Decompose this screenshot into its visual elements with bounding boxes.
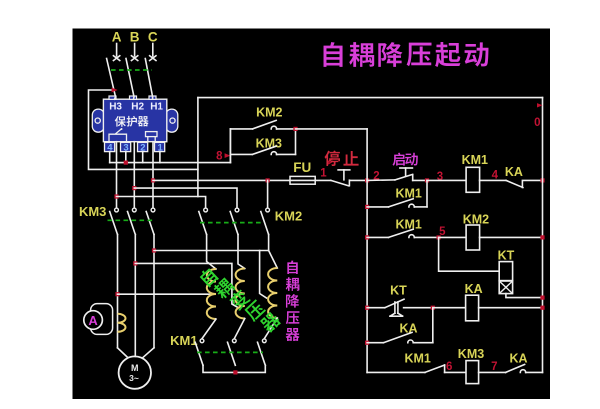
junction dot phase B xyxy=(132,186,136,190)
phase A wire into tab xyxy=(115,97,116,99)
wire to KM1 coil xyxy=(427,179,466,181)
KM2 coil xyxy=(466,225,480,250)
svg-text:H1: H1 xyxy=(150,102,163,113)
svg-text:KM3: KM3 xyxy=(458,347,484,361)
protector terminal 4 xyxy=(105,142,115,151)
label 保护器 xyxy=(115,116,126,127)
protector terminal 1 xyxy=(155,142,165,151)
svg-text:KA: KA xyxy=(465,282,483,296)
tap dot phase C xyxy=(152,248,156,252)
KA selfhold contact xyxy=(367,342,383,344)
return riser to KM2 column xyxy=(197,98,199,197)
svg-text:H3: H3 xyxy=(109,102,122,113)
aux to control rail xyxy=(296,128,368,130)
svg-text:H2: H2 xyxy=(131,102,144,113)
phase B wire to KM3 xyxy=(133,142,135,208)
red mark xyxy=(328,159,334,165)
svg-text:4: 4 xyxy=(492,169,499,181)
KA coil xyxy=(466,295,479,321)
title 自耦降压起动 xyxy=(324,42,343,67)
svg-text:M: M xyxy=(131,363,139,373)
rail dot KT xyxy=(540,296,544,300)
node 2 dot xyxy=(365,178,369,182)
KT delay element xyxy=(499,281,512,294)
svg-text:KM3: KM3 xyxy=(79,204,106,219)
svg-text:8: 8 xyxy=(216,151,223,163)
KA coil to rail xyxy=(479,307,543,309)
control right rail xyxy=(542,98,544,373)
aux junction dot xyxy=(293,127,297,131)
svg-text:7: 7 xyxy=(491,361,497,373)
svg-text:5: 5 xyxy=(439,226,446,238)
selfhold riser xyxy=(426,180,428,207)
KM2 aux contact xyxy=(230,128,252,130)
svg-text:KM1: KM1 xyxy=(462,153,488,167)
svg-text:FU: FU xyxy=(293,160,311,175)
svg-text:KA: KA xyxy=(505,165,523,179)
KA selfhold riser xyxy=(432,308,434,343)
svg-text:3~: 3~ xyxy=(129,373,139,383)
KM3 aux contact xyxy=(230,153,252,155)
wire fuse to stop xyxy=(315,179,331,181)
switch QS blade A xyxy=(107,59,116,97)
svg-text:KM2: KM2 xyxy=(256,106,282,120)
junction dot phase A xyxy=(114,194,118,198)
bottom row wire xyxy=(367,371,425,373)
rail dot row3 xyxy=(540,235,544,239)
autotransformer coil 2 xyxy=(236,269,245,319)
rail dot row1 xyxy=(540,178,544,182)
KM3 coil xyxy=(466,361,479,384)
protector body 保护器 xyxy=(103,99,166,142)
KM2 c2 to coil2 xyxy=(238,235,245,269)
supply lead wire xyxy=(152,44,154,57)
svg-text:KM2: KM2 xyxy=(275,209,302,224)
wire to KA coil xyxy=(433,307,466,309)
KM2 contact 3 xyxy=(266,208,270,212)
KM2 contact 1 xyxy=(204,208,208,212)
rail top arrow xyxy=(537,103,543,107)
stop button 停止 xyxy=(324,150,339,166)
autotransformer coil 3 xyxy=(268,268,277,318)
svg-text:A: A xyxy=(112,30,122,45)
rail dot row4 xyxy=(540,306,544,310)
wire KM2 coil to rail xyxy=(480,236,543,238)
wire KM1 coil to KA xyxy=(480,179,506,181)
node 5 dot xyxy=(437,235,441,239)
KM2 contact 2 xyxy=(235,208,239,212)
KM1 NC contact xyxy=(425,365,445,372)
tap line phase C xyxy=(154,250,269,252)
terminal stub wires xyxy=(109,152,111,163)
junction dot KM2 branch xyxy=(266,178,270,182)
coil1 to KM1 xyxy=(202,319,216,339)
protector terminal 2 xyxy=(138,142,148,151)
current transformer loop xyxy=(91,304,113,335)
KM3 contact 3 xyxy=(151,208,155,212)
row4 mid dot xyxy=(431,306,435,310)
row3 dot xyxy=(365,235,369,239)
KT to rail xyxy=(506,294,543,298)
magenta label 自耦降压器 xyxy=(287,260,297,274)
arrow terminal xyxy=(113,55,121,61)
KM3 contact 1 xyxy=(115,208,119,212)
svg-text:KT: KT xyxy=(390,284,407,298)
KM1 row3 contact xyxy=(367,236,388,238)
tap line phase A xyxy=(118,293,210,295)
branch phase B to KM2 xyxy=(134,188,237,208)
tap riser C xyxy=(260,251,267,299)
svg-text:KM1: KM1 xyxy=(395,187,421,201)
branch to KM2 c3 xyxy=(267,180,269,207)
row5 dot xyxy=(365,341,369,345)
KM3 contact 2 xyxy=(132,208,136,212)
KA NO bottom contact xyxy=(506,364,525,372)
motor wire B xyxy=(134,235,136,357)
protector internal switch xyxy=(109,129,127,141)
KM1 contact 2 xyxy=(232,339,236,343)
node 8 line xyxy=(110,162,231,164)
control feed line to fuse xyxy=(153,179,290,181)
KT coil xyxy=(499,262,512,281)
start button 启动 xyxy=(393,153,405,166)
protector terminal 3 xyxy=(121,142,131,151)
supply lead wire xyxy=(116,44,118,57)
node 8 arrow xyxy=(225,153,231,158)
phase C wire to KM3 xyxy=(152,142,154,208)
KM2 linkage dashed xyxy=(200,222,262,224)
KM1 contact 3 xyxy=(262,339,266,343)
junction dot T3 xyxy=(124,161,128,165)
autotransformer coil 1 xyxy=(207,269,216,319)
motor wire C xyxy=(153,235,155,348)
svg-text:1: 1 xyxy=(320,168,327,180)
top return line to right rail xyxy=(198,97,543,99)
tap dot phase B xyxy=(133,261,137,265)
phase A wire to KM3 xyxy=(116,142,118,208)
arrow terminal xyxy=(131,55,139,61)
KM1 star bus xyxy=(203,365,265,372)
star bus dot xyxy=(233,370,237,374)
control left rail xyxy=(366,129,368,373)
stop button contact xyxy=(331,180,349,186)
fuse FU xyxy=(290,176,315,184)
svg-text:KT: KT xyxy=(498,249,515,263)
tap dot phase A xyxy=(115,292,119,296)
node 3 dot xyxy=(425,178,429,182)
row2 dot xyxy=(365,205,369,209)
switch QS blade C xyxy=(145,59,152,97)
protector right ear xyxy=(166,109,178,132)
row4 dot xyxy=(365,306,369,310)
svg-text:KM1: KM1 xyxy=(404,352,430,366)
schematic canvas xyxy=(73,29,551,400)
aux pair right rail xyxy=(295,129,297,155)
wire KM3 coil to KA xyxy=(479,371,506,373)
wrap wire from phase A xyxy=(89,90,198,169)
protector internal resistor xyxy=(148,137,155,142)
coil2 to KM1 xyxy=(234,319,245,339)
KM3 linkage dashed xyxy=(108,219,156,221)
KM1 selfhold contact xyxy=(367,206,388,208)
svg-text:C: C xyxy=(148,30,158,45)
KM1 linkage dashed xyxy=(197,351,263,353)
svg-text:0: 0 xyxy=(534,117,540,129)
svg-text:KM1: KM1 xyxy=(395,217,421,231)
protector top tab xyxy=(109,96,116,99)
KT branch wire xyxy=(439,237,500,271)
switch QS blade B xyxy=(126,59,134,97)
svg-text:KM1: KM1 xyxy=(170,333,197,348)
coil3 to KM1 xyxy=(264,318,277,339)
motor M circle xyxy=(119,356,151,388)
green label 自耦变压器 xyxy=(198,266,219,287)
branch phase A to KM2 xyxy=(117,197,206,208)
motor wire A xyxy=(117,235,119,348)
svg-text:KA: KA xyxy=(509,352,527,366)
protector left ear xyxy=(92,109,104,132)
KM1 contact 1 xyxy=(200,339,204,343)
KM1 coil xyxy=(466,167,480,192)
tap line phase B xyxy=(135,263,238,307)
KM2 c3 to coil3 xyxy=(268,235,270,251)
ammeter A xyxy=(84,311,103,330)
svg-text:6: 6 xyxy=(446,361,452,373)
KM2 c1 to coil1 xyxy=(207,235,216,270)
svg-text:B: B xyxy=(130,30,140,45)
KA NO contact xyxy=(506,180,523,187)
supply lead wire xyxy=(134,44,136,57)
CT winding xyxy=(118,314,126,332)
protector top tab xyxy=(130,96,137,99)
KT timed contact xyxy=(367,307,385,309)
wire to KM2 coil xyxy=(439,236,467,238)
start button contact xyxy=(367,179,395,182)
red arrow at phase A junction xyxy=(112,88,118,93)
switch linkage dashed xyxy=(111,69,152,71)
aux pair left rail xyxy=(229,129,231,163)
arrow terminal xyxy=(149,55,157,61)
protector top tab xyxy=(149,96,156,99)
junction dot phase C xyxy=(151,178,155,182)
svg-text:A: A xyxy=(88,313,98,328)
